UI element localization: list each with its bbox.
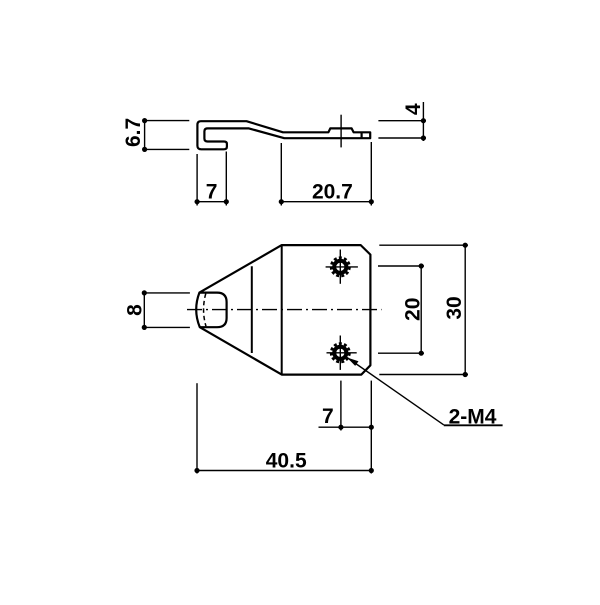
40.5 terminator dot left: [194, 468, 199, 473]
8 terminator dot bottom: [142, 325, 147, 330]
bend line left: [251, 266, 253, 353]
dimension 7 (side view): [197, 152, 226, 206]
bottom view part outline: [196, 245, 370, 375]
svg-text:20.7: 20.7: [312, 181, 353, 204]
4 dimension line: [422, 102, 424, 141]
bottom hole tap circle: [334, 347, 346, 359]
30 terminator dot bottom: [463, 372, 468, 377]
bottom hole M4: [327, 336, 357, 370]
tongue (hook end seen in plan): [199, 293, 226, 328]
svg-text:7: 7: [206, 180, 218, 203]
20 dimension line: [420, 266, 422, 353]
4 terminator dot top: [421, 118, 426, 123]
side view hole centerline: [340, 115, 342, 148]
top hole vertical crosshair: [339, 250, 341, 284]
svg-text:7: 7: [322, 405, 334, 428]
dimension 40.5: [197, 383, 371, 473]
dimension 20: [378, 266, 424, 353]
top hole horizontal crosshair: [326, 266, 358, 268]
8 witness line top: [143, 292, 190, 294]
7 terminator dot left: [195, 199, 200, 204]
20 witness line bottom: [378, 352, 424, 354]
bend line right: [281, 245, 283, 375]
4 witness line top: [378, 120, 426, 122]
svg-text:2-M4: 2-M4: [449, 405, 497, 428]
dimension 20.7: [281, 142, 371, 206]
7 bottom terminator dot right: [369, 425, 374, 430]
40.5 dimension line: [197, 470, 371, 472]
6.7 dimension line: [144, 121, 146, 150]
svg-text:20: 20: [401, 298, 424, 321]
leader underline: [444, 424, 503, 426]
dimension 7 (bottom view): [319, 381, 374, 474]
8 dimension line: [143, 293, 145, 328]
svg-text:30: 30: [443, 296, 466, 319]
20.7 witness line left: [280, 143, 282, 206]
top hole thread circle: [331, 258, 349, 276]
dimension 4: [378, 102, 426, 141]
4 terminator dot bottom: [421, 135, 426, 140]
7 bottom dimension line: [319, 426, 374, 428]
20.7 terminator dot left: [279, 199, 284, 204]
bottom hole thread circle: [331, 344, 349, 362]
40.5 witness line left: [196, 383, 198, 473]
svg-text:4: 4: [402, 103, 425, 115]
6.7 terminator dot top: [142, 118, 147, 123]
leader arrowhead: [347, 358, 359, 366]
leader line: [347, 358, 444, 425]
bottom hole horizontal crosshair: [327, 352, 357, 354]
8 witness line bottom: [143, 326, 190, 328]
6.7 witness line bottom: [143, 148, 189, 150]
7 dimension line: [197, 201, 226, 203]
bottom hole vertical crosshair: [339, 336, 341, 370]
tongue inner bend arc: [204, 294, 206, 327]
leader 2-M4: [347, 358, 503, 426]
20.7 dimension line: [281, 201, 371, 203]
8 terminator dot top: [142, 290, 147, 295]
7 / 40.5 shared witness line right edge: [370, 381, 372, 474]
side view step edge line: [361, 132, 363, 138]
20 terminator dot top: [419, 263, 424, 268]
20.7 terminator dot right: [369, 199, 374, 204]
20 terminator dot bottom: [419, 351, 424, 356]
7 terminator dot right: [224, 199, 229, 204]
6.7 terminator dot bottom: [142, 147, 147, 152]
4 witness line bottom: [378, 137, 426, 139]
svg-text:40.5: 40.5: [266, 450, 307, 473]
dimension 30: [379, 245, 468, 374]
7 bottom terminator dot left: [338, 425, 343, 430]
30 terminator dot top: [463, 243, 468, 248]
dimension 8: [143, 293, 190, 328]
30 dimension line: [464, 245, 466, 374]
30 witness line bottom: [379, 374, 468, 376]
7 witness line right: [225, 152, 227, 206]
7 witness line left: [196, 154, 198, 206]
7 bottom witness line left (hole center): [340, 381, 342, 431]
svg-text:8: 8: [124, 304, 147, 316]
top hole M4: [326, 250, 358, 284]
top hole tap circle: [334, 261, 346, 273]
side view bracket outline: [197, 121, 370, 149]
horizontal centerline (bottom view): [187, 309, 382, 311]
6.7 witness line top: [143, 120, 189, 122]
svg-text:6.7: 6.7: [122, 118, 145, 147]
dimension 6.7: [143, 121, 189, 150]
20 witness line top: [378, 265, 424, 267]
30 witness line top: [379, 244, 468, 246]
20.7 witness line right: [370, 142, 372, 206]
40.5 terminator dot right: [369, 468, 374, 473]
